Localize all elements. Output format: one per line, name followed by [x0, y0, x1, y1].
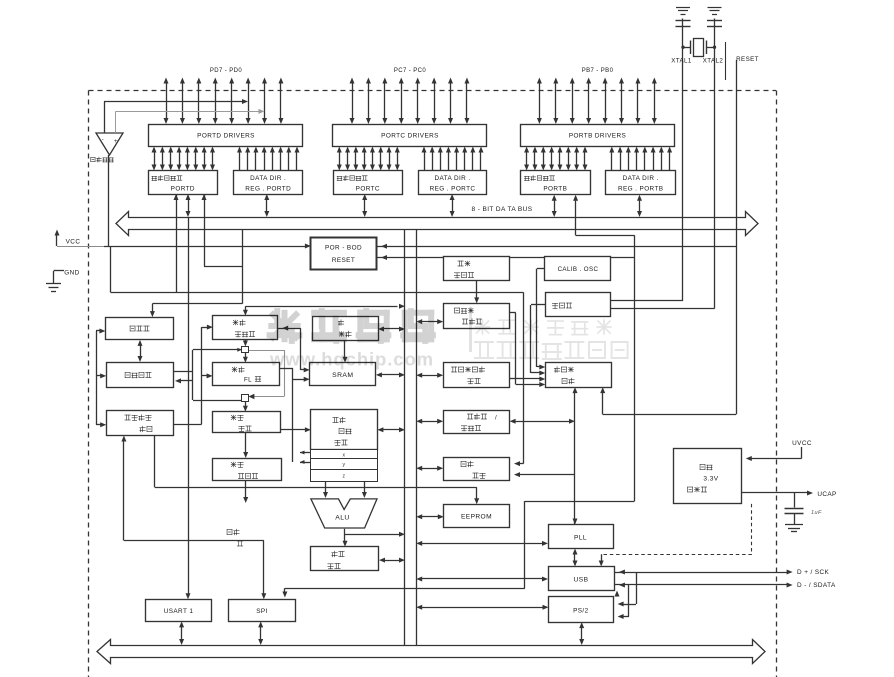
capacitor C3 1uF	[785, 493, 823, 532]
wire D+/SCK	[614, 569, 829, 576]
box PLL	[549, 525, 614, 549]
svg-text:UCAP: UCAP	[817, 491, 836, 498]
box data dir reg PORTB	[606, 171, 676, 195]
wire RESET pin line	[736, 60, 738, 414]
box general purpose registers	[311, 410, 378, 482]
svg-text:DATA DIR .: DATA DIR .	[250, 175, 286, 182]
bottom data bus arrow	[97, 640, 765, 664]
box program counter	[213, 316, 278, 340]
pin arrows PORTD	[164, 78, 284, 125]
svg-text:XTAL1: XTAL1	[671, 58, 692, 65]
dashed border	[89, 91, 777, 677]
arrow timer pllline	[510, 419, 575, 424]
svg-text:GND: GND	[64, 270, 79, 277]
arrow watchdog bus	[416, 319, 443, 324]
box stack pointer	[313, 317, 379, 341]
svg-text:USART 1: USART 1	[164, 608, 194, 615]
box data dir reg PORTD	[234, 171, 303, 195]
arrow mcucr bus	[416, 373, 443, 378]
label XTAL2	[703, 58, 724, 65]
wire reset to por-bod	[377, 244, 737, 249]
svg-text:DATA DIR .: DATA DIR .	[434, 175, 470, 182]
svg-text:PORTD: PORTD	[171, 186, 195, 193]
wire osc to timing	[531, 305, 546, 376]
label PC7 - PC0	[394, 68, 427, 74]
power GND	[46, 270, 80, 292]
wire XTAL1 pin line	[682, 26, 684, 301]
arrow timer bus	[416, 419, 443, 424]
svg-text:FL: FL	[244, 377, 252, 384]
svg-text:D + / SCK: D + / SCK	[797, 569, 830, 576]
svg-text:XTAL2: XTAL2	[703, 58, 724, 65]
box instruction register	[213, 401, 281, 432]
box calibrated oscillator	[545, 257, 611, 281]
arrows drivers-dataregister PORTC	[337, 147, 400, 171]
arrow gpr bus	[377, 427, 405, 432]
arrow interrupt bus	[416, 466, 443, 471]
wire vccline to timing	[524, 377, 546, 382]
svg-text:3.3V: 3.3V	[703, 476, 718, 483]
label RESET	[726, 42, 759, 80]
svg-text:+: +	[114, 138, 118, 145]
arrows drivers-dataregister PORTB	[524, 147, 587, 171]
wire mcucr to timing	[510, 378, 524, 380]
capacitor C2 ground	[708, 8, 722, 27]
wire calib to timing	[537, 269, 546, 370]
wire regulator to usb dashed	[599, 504, 752, 567]
capacitor C1 ground	[676, 8, 690, 27]
svg-text:ALU: ALU	[335, 515, 349, 522]
arrows drivers-ddr PORTC	[422, 147, 484, 171]
svg-text:/: /	[495, 416, 497, 422]
svg-text:y: y	[343, 462, 346, 468]
wire watchdog to timing	[510, 313, 546, 388]
box 3.3V regulator	[674, 449, 742, 504]
svg-text:z: z	[343, 474, 346, 480]
wire x635 reset net	[377, 235, 635, 588]
watermark line2	[475, 342, 628, 359]
svg-text:-: -	[102, 137, 104, 143]
box mcu control register	[444, 363, 510, 388]
wire middle feeds	[278, 326, 311, 464]
svg-text:SPI: SPI	[256, 608, 268, 615]
wire alu out	[343, 529, 406, 547]
wire timing-pll line	[573, 387, 578, 524]
wire vcc to por-bod	[104, 244, 524, 293]
label control lines	[227, 480, 248, 546]
arrow ps2 bus	[416, 605, 548, 610]
label 8-bit data bus	[472, 206, 533, 213]
arrow pll bus	[416, 541, 548, 546]
box data dir reg PORTC	[419, 171, 487, 195]
svg-text:www.hqchip.com: www.hqchip.com	[269, 349, 434, 370]
box program flash	[213, 353, 280, 386]
crystal XTAL	[681, 39, 716, 57]
label XTAL1	[671, 58, 692, 65]
arrow pll-usb	[573, 549, 578, 567]
box watchdog timer	[444, 304, 510, 329]
svg-text:REG . PORTB: REG . PORTB	[618, 186, 663, 193]
svg-text:CALIB . OSC: CALIB . OSC	[558, 266, 599, 273]
wire debugwire feed	[150, 229, 243, 317]
box data register PORTB	[521, 171, 591, 195]
arrows drivers-ddr PORTB	[609, 147, 672, 171]
box on-chip debug	[107, 363, 174, 388]
box timer counters	[444, 411, 510, 434]
wire XTAL2 pin line	[714, 26, 716, 309]
svg-text:PORTC: PORTC	[356, 186, 380, 193]
svg-text:PLL: PLL	[574, 535, 587, 542]
svg-text:PD7 - PD0: PD7 - PD0	[210, 68, 243, 74]
capacitor C2	[707, 21, 722, 27]
alu U1	[311, 482, 377, 528]
capacitor C1	[676, 21, 691, 27]
wire program counter feed	[243, 304, 405, 316]
svg-text:8 - BIT DA TA BUS: 8 - BIT DA TA BUS	[472, 206, 533, 213]
label PD7 - PD0	[210, 68, 243, 74]
box PORTC DRIVERS	[333, 125, 487, 147]
svg-text:PC7 - PC0: PC7 - PC0	[394, 68, 427, 74]
wire comparator output	[108, 155, 110, 246]
op-amp analog comparator	[96, 133, 123, 155]
arrows drivers-ddr PORTD	[237, 147, 300, 171]
box POR-BOD RESET	[311, 238, 377, 270]
box PORTD DRIVERS	[149, 125, 303, 147]
arrows portd register to bus	[174, 194, 270, 599]
pin arrows PORTC	[350, 78, 470, 125]
box EEPROM	[444, 505, 510, 528]
junction square 2	[193, 350, 285, 401]
svg-text:PB7 - PB0: PB7 - PB0	[582, 68, 614, 74]
svg-text:DATA DIR .: DATA DIR .	[623, 175, 659, 182]
svg-text:REG . PORTC: REG . PORTC	[430, 186, 476, 193]
arrows drivers-dataregister PORTD	[152, 147, 216, 171]
power VCC	[55, 230, 105, 247]
watermark hqchip big text	[270, 311, 433, 341]
wire proglogic to spi	[121, 436, 266, 600]
wire UCAP	[741, 491, 836, 499]
wire D-/SDATA	[614, 582, 836, 589]
wire interrupt feeds	[514, 459, 575, 477]
box SRAM	[310, 363, 376, 386]
svg-text:USB: USB	[574, 577, 589, 584]
box data register PORTC	[334, 171, 403, 195]
arrow usart1 bus	[179, 621, 184, 645]
svg-text:PORTB DRIVERS: PORTB DRIVERS	[569, 133, 626, 140]
svg-text:x: x	[343, 453, 346, 459]
svg-text:POR - BOD: POR - BOD	[325, 245, 362, 252]
svg-text:1uF: 1uF	[811, 510, 822, 516]
svg-text:UVCC: UVCC	[792, 440, 812, 447]
box debugWIRE	[106, 318, 174, 340]
wire comparator inputs	[104, 99, 265, 133]
box programming logic	[107, 411, 174, 436]
pin arrows PORTB	[537, 78, 657, 125]
wire sck to spi	[282, 588, 525, 597]
box data register PORTD	[149, 171, 218, 195]
box timing and control	[546, 363, 612, 388]
svg-text:PS/2: PS/2	[573, 608, 589, 615]
arrows portb register to bus	[552, 195, 642, 236]
arrow sram bus	[376, 372, 405, 377]
arrow stackpointer-sram	[343, 340, 348, 363]
svg-text:PORTD DRIVERS: PORTD DRIVERS	[197, 133, 255, 140]
box PS2	[549, 597, 614, 623]
arrow debugwire-ocd	[138, 340, 143, 362]
svg-text:D - / SDATA: D - / SDATA	[797, 582, 836, 589]
svg-text:PORTB: PORTB	[543, 186, 567, 193]
arrow eeprom bus	[416, 514, 444, 519]
box interrupt unit	[444, 458, 510, 481]
svg-text:RESET: RESET	[332, 257, 355, 264]
wire reset to timing	[600, 387, 736, 414]
arrow stackpointer bus	[378, 327, 405, 332]
junction square 1	[193, 340, 249, 400]
wire ocd connections	[174, 325, 213, 425]
arrow intosc-watchdog	[474, 281, 479, 304]
label comparator	[91, 157, 114, 162]
box instruction decoder	[213, 433, 282, 481]
wire left feed line	[96, 329, 106, 428]
svg-text:VCC: VCC	[66, 239, 81, 246]
svg-text:SRAM: SRAM	[332, 372, 353, 379]
label PB7 - PB0	[582, 68, 614, 74]
svg-text:PORTC DRIVERS: PORTC DRIVERS	[381, 133, 439, 140]
svg-text:EEPROM: EEPROM	[461, 514, 492, 521]
arrow ps2 bottombus	[579, 622, 584, 645]
wire ps2 data link	[618, 585, 629, 619]
box SPI	[229, 600, 296, 622]
watermark www.hqchip.com	[269, 349, 434, 370]
wire oscillator to xtal	[611, 301, 715, 309]
arrow usb-ps2 link	[615, 591, 620, 597]
watermark line1	[476, 320, 611, 334]
box internal oscillator	[444, 257, 510, 281]
box USB	[549, 567, 615, 591]
arrow spi bus	[258, 621, 263, 645]
box PORTB DRIVERS	[521, 125, 675, 147]
wire proglogic to eeprom	[155, 436, 480, 505]
svg-text:REG . PORTD: REG . PORTD	[245, 186, 291, 193]
box status register	[311, 547, 379, 571]
arrow usb bus	[416, 577, 548, 582]
svg-text:RESET: RESET	[736, 56, 759, 63]
arrow status bus	[379, 558, 405, 563]
8-bit data bus arrow	[116, 212, 758, 236]
watermark divider bar	[469, 307, 472, 352]
box oscillator	[546, 293, 611, 317]
arrows portc register to bus	[362, 194, 454, 217]
power UVCC	[746, 440, 812, 461]
box USART1	[146, 600, 212, 622]
wire vertical bus lines	[405, 229, 417, 645]
wire ps2 clock link	[618, 572, 637, 607]
